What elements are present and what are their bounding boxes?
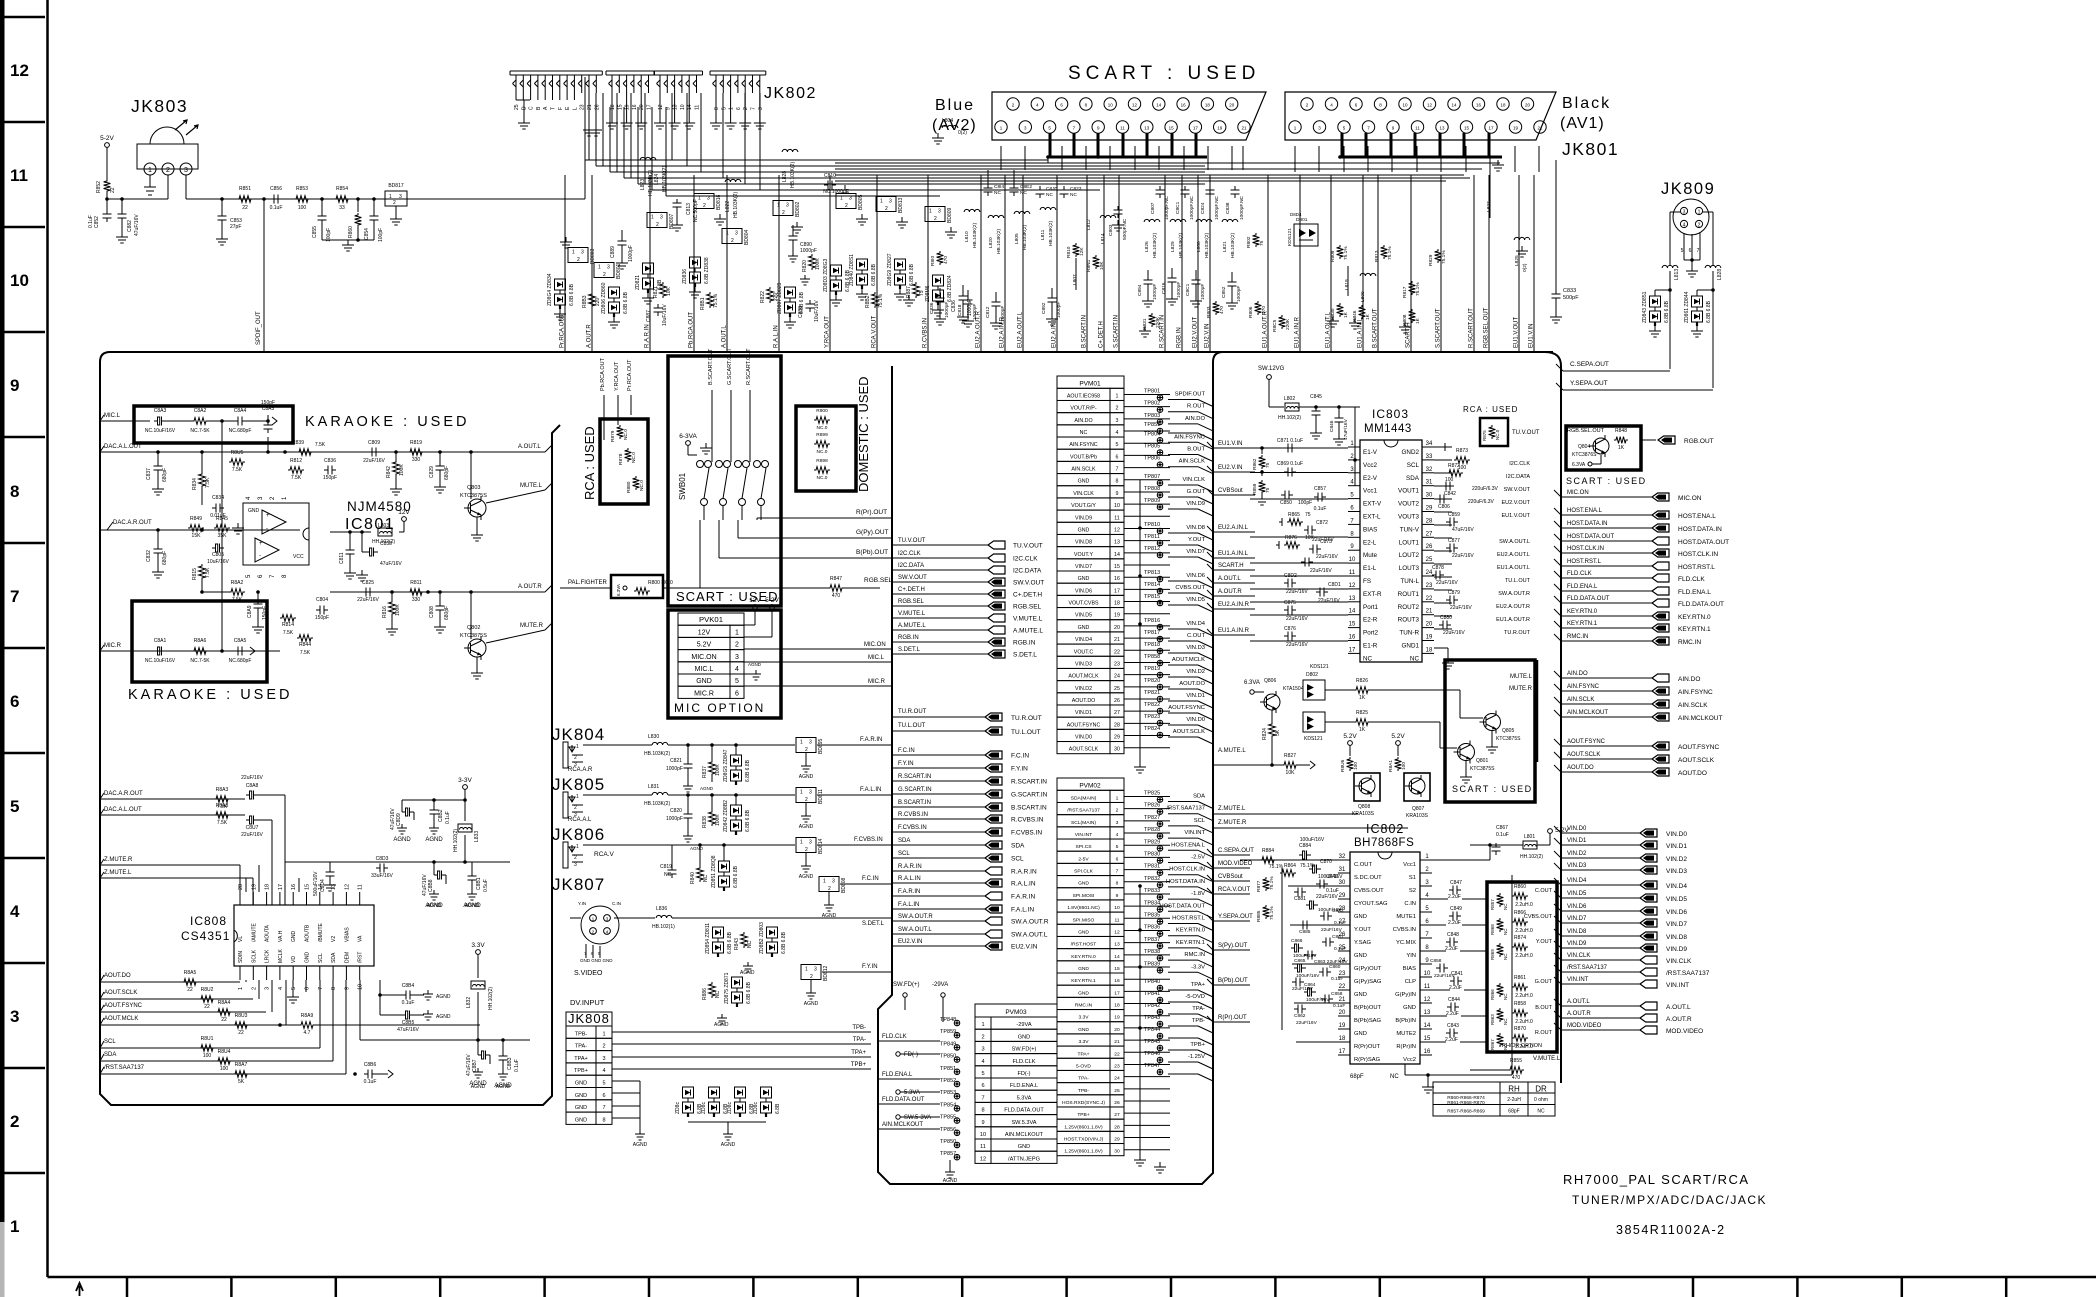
svg-text:RGB.SEL.OUT: RGB.SEL.OUT [1484, 307, 1490, 348]
svg-text:100pF: 100pF [1298, 500, 1312, 506]
capacitor C8A4 NC.680pF [234, 420, 238, 422]
svg-text:NC.10uF/16V: NC.10uF/16V [145, 658, 176, 664]
svg-text:R810: R810 [1066, 246, 1072, 258]
connector Black AV1 pins [1301, 98, 1313, 110]
svg-text:(AV1): (AV1) [1560, 115, 1605, 132]
svg-text:12: 12 [1114, 929, 1120, 935]
svg-text:75.1%: 75.1% [878, 293, 884, 308]
svg-text:GND: GND [1078, 929, 1089, 935]
component BD808 [819, 877, 839, 892]
svg-text:16: 16 [1349, 635, 1356, 641]
svg-text:NC: NC [664, 872, 672, 878]
wire PVM02 gnd bus [1139, 886, 1141, 1155]
svg-text:AIN.DO: AIN.DO [1185, 416, 1205, 422]
svg-text:470: 470 [943, 256, 949, 264]
svg-text:1: 1 [929, 209, 932, 215]
svg-text:R8B2: R8B2 [865, 295, 871, 308]
svg-text:3: 3 [399, 194, 402, 200]
svg-text:500uF/16V: 500uF/16V [313, 871, 319, 896]
svg-text:L821: L821 [1222, 241, 1228, 252]
svg-text:HOST.TXD(VIN.J): HOST.TXD(VIN.J) [1064, 1137, 1104, 1143]
svg-text:EU2.A.IN.L: EU2.A.IN.L [1218, 525, 1249, 531]
svg-text:B.OUT: B.OUT [1187, 447, 1205, 453]
transistor Q802 KTC3875S [468, 639, 486, 657]
svg-text:14: 14 [1451, 103, 1457, 108]
svg-text:C.SEPA.OUT: C.SEPA.OUT [1570, 361, 1609, 368]
svg-text:TPB+: TPB+ [1077, 1112, 1090, 1118]
svg-text:6.3VA: 6.3VA [616, 584, 621, 596]
svg-text:6.3VA: 6.3VA [1244, 680, 1260, 686]
svg-text:1: 1 [651, 215, 654, 221]
svg-text:BD813: BD813 [898, 197, 904, 213]
svg-text:C856: C856 [270, 186, 282, 192]
svg-text:JK808: JK808 [568, 1011, 610, 1026]
wires PVM02 to module C edge [1168, 801, 1198, 803]
resistor R830 1K [1337, 303, 1344, 317]
svg-text:10: 10 [1424, 971, 1431, 977]
inductor L804 0(2) [942, 125, 958, 128]
svg-text:F: F [558, 107, 564, 110]
svg-text:2: 2 [603, 272, 606, 278]
capacitor C8B5 47uF/16V [402, 1014, 406, 1016]
svg-text:20: 20 [1525, 103, 1531, 108]
svg-text:22uF/16V: 22uF/16V [357, 597, 379, 603]
svg-text:4: 4 [278, 987, 284, 990]
svg-text:TU.V.OUT: TU.V.OUT [898, 538, 926, 544]
svg-text:1K: 1K [1415, 317, 1421, 324]
resistor R8U1 100 [199, 1045, 215, 1052]
svg-text:3.3V: 3.3V [1078, 1015, 1089, 1021]
svg-text:HB.103K(2): HB.103K(2) [1230, 233, 1236, 258]
svg-text:R886: R886 [702, 988, 708, 1000]
wire AOUT rail lower [360, 1039, 530, 1041]
svg-text:R876: R876 [1285, 535, 1297, 541]
svg-text:C843: C843 [1447, 1023, 1459, 1029]
svg-text:22: 22 [1426, 596, 1433, 602]
svg-text:19: 19 [625, 104, 631, 110]
resistor R884 [1260, 857, 1276, 864]
svg-text:10: 10 [358, 984, 364, 990]
svg-text:SW.A.OUT.L: SW.A.OUT.L [898, 927, 932, 933]
svg-text:0.1uF: 0.1uF [1331, 976, 1343, 982]
svg-text:12: 12 [1132, 103, 1138, 108]
svg-text:5: 5 [981, 1071, 984, 1077]
svg-text:JK806: JK806 [552, 825, 605, 844]
svg-text:VIN.D2: VIN.D2 [1666, 856, 1687, 863]
svg-text:TP821: TP821 [1144, 690, 1160, 696]
wire A.MUTE bus [1213, 764, 1282, 766]
svg-text:10uF/16V: 10uF/16V [814, 300, 820, 322]
capacitor C869 0.1uF [1284, 471, 1288, 473]
resistor R8A2 7.5K [229, 589, 245, 596]
wire bundle comb 1 [510, 70, 602, 72]
svg-text:HB.103K(2): HB.103K(2) [1152, 233, 1158, 258]
svg-text:5K: 5K [1275, 729, 1281, 736]
capacitor C863 22uF/16V [1304, 954, 1308, 956]
svg-text:SW.5-3VA: SW.5-3VA [904, 1115, 931, 1121]
svg-text:HOST.ENA.L: HOST.ENA.L [1567, 508, 1603, 514]
svg-text:7.5K: 7.5K [291, 475, 302, 481]
svg-text:GND: GND [575, 1117, 587, 1123]
svg-text:ZD821: ZD821 [635, 275, 641, 290]
svg-text:16: 16 [632, 104, 638, 110]
svg-text:9: 9 [344, 987, 350, 990]
component D803 KDS121 [1303, 712, 1325, 732]
svg-text:I2C.CLK: I2C.CLK [898, 551, 921, 557]
svg-text:JK809: JK809 [1661, 180, 1715, 198]
ground at Black bus [1497, 160, 1499, 165]
svg-text:VIN.D4: VIN.D4 [1075, 637, 1092, 643]
resistor R8A4 22 [216, 1009, 232, 1016]
edge hooks box C right [1554, 490, 1561, 497]
svg-text:L811: L811 [1040, 229, 1046, 240]
svg-text:1: 1 [389, 194, 392, 200]
svg-text:C821: C821 [670, 758, 682, 764]
zener pair ZD842/ZD8x2 [731, 805, 742, 816]
svg-text:Pb.RCA.OUT: Pb.RCA.OUT [689, 312, 695, 348]
svg-text:TPB-: TPB- [575, 1031, 588, 1037]
svg-text:C862: C862 [1294, 1013, 1306, 1019]
svg-text:JK803: JK803 [131, 96, 188, 116]
svg-text:14: 14 [687, 104, 693, 110]
svg-text:MM1443: MM1443 [1364, 423, 1412, 435]
svg-text:R844: R844 [299, 642, 311, 648]
svg-text:C8D1: C8D1 [1328, 582, 1341, 588]
ground below C882 [121, 232, 123, 237]
svg-text:BD816: BD816 [716, 194, 722, 210]
svg-text:21: 21 [1114, 1039, 1120, 1045]
svg-text:RCA.V: RCA.V [594, 851, 615, 858]
svg-text:FLD.DATA.OUT: FLD.DATA.OUT [882, 1097, 925, 1103]
svg-text:12: 12 [980, 1156, 986, 1162]
component BD809 [925, 207, 945, 222]
svg-text:HOST.DATA.IN: HOST.DATA.IN [1678, 526, 1722, 533]
svg-text:3854R11002A-2: 3854R11002A-2 [1616, 1223, 1726, 1237]
svg-text:R(Pr).OUT: R(Pr).OUT [1218, 1015, 1247, 1021]
svg-text:1000pF: 1000pF [944, 302, 950, 318]
svg-text:500pF.NC: 500pF.NC [1122, 218, 1128, 240]
svg-text:+: + [259, 541, 263, 547]
svg-text:680pF: 680pF [444, 466, 450, 480]
svg-text:R840: R840 [690, 872, 696, 884]
svg-text:B.SCART.IN: B.SCART.IN [1011, 805, 1047, 812]
svg-text:S.DET.L: S.DET.L [1013, 652, 1037, 659]
svg-text:GND: GND [1078, 966, 1089, 972]
svg-text:6.8B 6.8B: 6.8B 6.8B [623, 291, 629, 314]
capacitor C852b 1000pF [1231, 278, 1233, 282]
capacitor C876 22uF/16V [1284, 635, 1288, 637]
svg-text:B.SCART.IN: B.SCART.IN [1082, 315, 1088, 348]
svg-text:2: 2 [574, 805, 577, 811]
svg-text:R8A2: R8A2 [231, 580, 244, 586]
svg-text:VIN.D4: VIN.D4 [1186, 621, 1205, 627]
svg-text:TPB+: TPB+ [574, 1068, 588, 1074]
ground zener cluster JK808 [688, 1121, 766, 1123]
svg-text:5-2V: 5-2V [100, 135, 114, 142]
svg-text:DAC.A.L.OUT: DAC.A.L.OUT [104, 444, 142, 450]
svg-text:26: 26 [1114, 698, 1120, 704]
svg-text:TPA-: TPA- [853, 1037, 866, 1043]
svg-text:17: 17 [1349, 647, 1356, 653]
svg-text:MOD.VIDEO: MOD.VIDEO [1567, 1023, 1602, 1029]
svg-text:0(2): 0(2) [1522, 263, 1528, 272]
resistor R843 NC [741, 932, 748, 948]
svg-text:C8B4: C8B4 [402, 983, 415, 989]
svg-text:MIC OPTION: MIC OPTION [674, 701, 765, 715]
svg-text:R8A4: R8A4 [218, 1000, 231, 1006]
svg-text:3: 3 [889, 199, 892, 205]
svg-text:NC.10uF/16V: NC.10uF/16V [145, 428, 176, 434]
svg-text:SCART : USED: SCART : USED [676, 589, 779, 604]
IC808 pins [239, 892, 241, 905]
svg-text:VIN.INT: VIN.INT [1075, 832, 1092, 838]
capacitor C8A8 22uF/16V [246, 794, 250, 796]
svg-text:Black: Black [1562, 95, 1611, 112]
svg-text:AIN.DO: AIN.DO [1678, 676, 1700, 683]
svg-text:R859: R859 [1252, 483, 1258, 495]
svg-text:R857: R857 [1490, 899, 1495, 910]
svg-text:AGND: AGND [799, 824, 814, 830]
svg-text:12: 12 [344, 884, 350, 890]
zener pair ZD851b/ZD8x8 [719, 861, 730, 872]
svg-text:AIN.SCLK: AIN.SCLK [1071, 467, 1096, 473]
svg-text:G(Py).OUT: G(Py).OUT [856, 529, 889, 536]
svg-text:C8B6: C8B6 [364, 1062, 377, 1068]
svg-text:L828: L828 [1717, 269, 1723, 280]
svg-text:15: 15 [617, 104, 623, 110]
svg-text:EU2.V.IN: EU2.V.IN [1218, 465, 1242, 471]
svg-text:7.5K: 7.5K [205, 477, 211, 488]
resistor R8A5 22 [182, 979, 198, 986]
svg-text:L806: L806 [1196, 241, 1202, 252]
connector JK800 Blue AV2 body [992, 92, 1266, 140]
svg-text:RGB.SEL: RGB.SEL [1013, 604, 1042, 611]
component BD804 [722, 229, 742, 244]
transistor Q805 KTC3875S [1484, 714, 1501, 731]
svg-text:R.CVBS.IN: R.CVBS.IN [923, 318, 929, 348]
svg-text:V.MUTE.L: V.MUTE.L [1533, 1056, 1561, 1062]
svg-text:VIN.D1: VIN.D1 [1186, 693, 1205, 699]
bold box SCART USED (mute) [1445, 660, 1535, 802]
resistor R880 NC.0 [633, 476, 640, 490]
svg-text:TPA-: TPA- [1078, 1076, 1089, 1082]
svg-text:C873: C873 [1320, 539, 1332, 545]
capacitor C888 10uF/16V [809, 300, 811, 304]
svg-text:AIN.FSYNC: AIN.FSYNC [1174, 434, 1205, 440]
svg-text:AOUT.SCLK: AOUT.SCLK [1173, 729, 1205, 735]
svg-text:TP837: TP837 [1144, 937, 1160, 943]
svg-text:AGND: AGND [393, 837, 411, 843]
svg-text:AIN.MCLKOUT: AIN.MCLKOUT [1567, 710, 1608, 716]
svg-text:HOST.DATA.IN: HOST.DATA.IN [1567, 521, 1607, 527]
svg-text:2: 2 [845, 203, 848, 209]
svg-text:33uF/16V: 33uF/16V [371, 873, 393, 879]
wires JK808 GND pins [612, 1080, 640, 1082]
svg-text:C845: C845 [1310, 394, 1322, 400]
svg-text:11: 11 [1349, 570, 1356, 576]
svg-text:VIN.D7: VIN.D7 [1567, 916, 1587, 922]
svg-text:100K: 100K [815, 258, 821, 270]
svg-text:Port1: Port1 [1363, 604, 1379, 611]
capacitor C8D3 33uF/16V [376, 867, 380, 869]
svg-text:Y.OUT: Y.OUT [1188, 537, 1205, 543]
svg-text:3: 3 [758, 107, 764, 110]
svg-text:2: 2 [885, 206, 888, 212]
svg-text:Z.MUTE.R: Z.MUTE.R [1218, 820, 1247, 826]
svg-text:/RST: /RST [358, 952, 364, 963]
svg-text:R.SCART.OUT: R.SCART.OUT [746, 348, 752, 385]
svg-text:C8I4: C8I4 [994, 184, 1004, 190]
svg-text:I2C.CLK: I2C.CLK [1509, 461, 1530, 467]
svg-text:22uF/16V: 22uF/16V [241, 832, 263, 838]
svg-text:JK802: JK802 [764, 85, 817, 102]
capacitor C8E2 NC [1013, 184, 1015, 188]
svg-text:BD817: BD817 [388, 183, 404, 189]
svg-text:C855: C855 [312, 226, 318, 238]
svg-text:AOUT.FSYNC: AOUT.FSYNC [104, 1003, 143, 1009]
svg-text:D8D4: D8D4 [1290, 212, 1302, 217]
svg-text:15: 15 [305, 884, 311, 890]
svg-text:C888: C888 [798, 306, 804, 318]
wire MIC.R [744, 685, 892, 687]
svg-text:11: 11 [10, 166, 28, 185]
svg-text:NC: NC [1070, 192, 1077, 198]
svg-text:R.CVBS.IN: R.CVBS.IN [898, 812, 928, 818]
svg-text:22: 22 [1114, 1051, 1120, 1057]
capacitor C8D4 500uF/16V [329, 862, 331, 868]
svg-text:C808: C808 [429, 606, 435, 618]
svg-text:C.OUT: C.OUT [1354, 862, 1372, 868]
svg-text:RGB.IN: RGB.IN [898, 635, 919, 641]
svg-text:BD807: BD807 [669, 213, 675, 229]
svg-text:KRA103S: KRA103S [1406, 813, 1429, 819]
JK809 shield pins 5 6 7 [1683, 233, 1685, 260]
svg-text:Mute: Mute [1363, 552, 1377, 559]
svg-text:VIN.D2: VIN.D2 [1567, 851, 1587, 857]
svg-text:VIN.D0: VIN.D0 [1186, 717, 1205, 723]
svg-text:HB.103K(2): HB.103K(2) [662, 166, 668, 192]
svg-text:7: 7 [602, 1105, 605, 1111]
svg-text:AOUT.DO: AOUT.DO [1678, 770, 1707, 777]
svg-text:18: 18 [1500, 103, 1506, 108]
resistor R834 7.5K [199, 472, 206, 488]
wire mute vertical bus [1536, 660, 1539, 762]
svg-text:LOUT1: LOUT1 [1399, 539, 1420, 546]
resistor R860 + capacitor C854 [357, 199, 359, 212]
svg-text:2.2uF: 2.2uF [1445, 946, 1458, 952]
svg-text:C8A9: C8A9 [247, 605, 253, 618]
svg-text:12: 12 [1349, 583, 1356, 589]
svg-text:PVK01: PVK01 [699, 615, 723, 624]
svg-text:4: 4 [1116, 430, 1119, 436]
svg-text:FLD.CLK: FLD.CLK [882, 1034, 907, 1040]
svg-text:B(Pb)IN: B(Pb)IN [1395, 1018, 1416, 1024]
JK807 shield pins [585, 944, 587, 958]
svg-text:22uF/16V: 22uF/16V [241, 775, 263, 781]
svg-text:GND2: GND2 [1402, 449, 1420, 456]
svg-text:R8B3: R8B3 [582, 295, 588, 308]
svg-text:19: 19 [1114, 613, 1120, 619]
capacitor C8B1 0.5uF [471, 872, 473, 876]
svg-text:150pF: 150pF [315, 615, 329, 621]
zener pair ZD8D3/ZD8G3 [831, 265, 842, 276]
svg-text:R866: R866 [1490, 989, 1495, 1000]
svg-text:AGND: AGND [943, 1178, 958, 1184]
svg-text:16: 16 [1114, 576, 1120, 582]
svg-text:1000pF.NC: 1000pF.NC [1239, 195, 1245, 220]
svg-text:10: 10 [1108, 103, 1114, 108]
svg-text:SW.FD(+): SW.FD(+) [1012, 1047, 1037, 1053]
capacitor C870 100uF/16V [1309, 868, 1313, 870]
svg-text:20: 20 [1114, 625, 1120, 631]
component D802 KDS121 [1303, 680, 1325, 700]
svg-text:S2: S2 [1409, 888, 1416, 894]
svg-text:14: 14 [1156, 103, 1162, 108]
svg-text:TP817: TP817 [1144, 630, 1160, 636]
svg-text:TP859: TP859 [940, 1029, 956, 1035]
svg-text:AOUT.MCLK: AOUT.MCLK [104, 1016, 138, 1022]
resistor R885 75.1% [1263, 905, 1270, 919]
connector JK807 S-VIDEO body [581, 906, 619, 944]
svg-text:C8B3: C8B3 [507, 1057, 513, 1070]
svg-text:1000pF: 1000pF [666, 816, 683, 822]
resistor R809 75.1% [1337, 245, 1344, 259]
RCA:USED bold box [600, 419, 648, 504]
capacitor C885 22uF/16V [1299, 924, 1303, 926]
svg-text:1: 1 [602, 1031, 605, 1037]
svg-text:75.1%: 75.1% [1441, 250, 1447, 264]
svg-text:C8B8: C8B8 [428, 879, 434, 892]
svg-text:8: 8 [981, 1108, 984, 1114]
inductor L810 HB_103K(2) [964, 209, 980, 212]
svg-text:AOUT.DO: AOUT.DO [1072, 698, 1096, 704]
svg-text:C816: C816 [1161, 282, 1167, 294]
svg-text:GND: GND [1078, 881, 1089, 887]
svg-text:DAC.A.R.OUT: DAC.A.R.OUT [113, 520, 152, 526]
svg-text:10K: 10K [1305, 535, 1315, 541]
resistor R847 470 [828, 585, 844, 592]
svg-text:L824: L824 [654, 174, 660, 185]
svg-text:3: 3 [265, 987, 271, 990]
svg-text:Y.OUT: Y.OUT [1536, 939, 1553, 945]
inductor L833 HH_102(2) [458, 824, 472, 832]
svg-text:AGND: AGND [436, 1014, 451, 1020]
svg-text:HB.103K(2): HB.103K(2) [1178, 233, 1184, 258]
svg-text:L822: L822 [725, 201, 731, 212]
svg-text:7.5K: 7.5K [232, 467, 243, 473]
svg-text:C866: C866 [1291, 938, 1303, 944]
svg-text:L829: L829 [1170, 241, 1176, 252]
svg-text:R885: R885 [1256, 910, 1262, 922]
svg-text:TP848: TP848 [940, 1017, 956, 1023]
svg-text:TPB-: TPB- [1078, 1088, 1090, 1094]
svg-text:AOUT.SCLK: AOUT.SCLK [1069, 747, 1099, 753]
svg-text:VIN.D9: VIN.D9 [1666, 946, 1687, 953]
svg-text:BIAS: BIAS [1403, 966, 1416, 972]
resistor R849 15K [188, 525, 204, 532]
svg-text:R884: R884 [1262, 848, 1274, 854]
svg-text:AOUTA: AOUTA [265, 924, 271, 942]
wire bundle comb 3 [654, 70, 703, 72]
svg-text:47uF/16V: 47uF/16V [397, 1027, 419, 1033]
svg-text:R8A8: R8A8 [216, 803, 229, 809]
svg-text:BH7868FS: BH7868FS [1354, 837, 1414, 849]
resistor R864 75.1% [1280, 870, 1296, 877]
PVM02 ground [1159, 1162, 1161, 1167]
svg-text:GND: GND [1078, 625, 1090, 631]
svg-text:F.C.IN: F.C.IN [1011, 753, 1029, 760]
svg-text:/ATTN.JEPG: /ATTN.JEPG [1008, 1156, 1040, 1162]
